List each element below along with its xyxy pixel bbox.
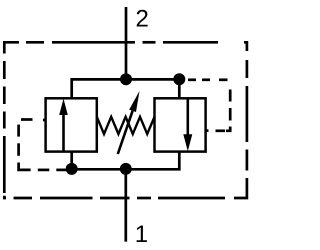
junction dot port1 / bottom bus — [120, 163, 132, 175]
right valve top stub wire — [178, 79, 181, 98]
svg-text:1: 1 — [135, 221, 148, 248]
enclosure dashed boundary left — [4, 61, 6, 198]
pilot line of V2 (dashed, from port2 side to right of valve) — [188, 80, 230, 131]
valve V1 envelope (left relief element) — [46, 98, 97, 151]
top bus wire with left corner to valve V1 — [72, 79, 180, 98]
port 2 line — [125, 7, 128, 80]
valve V2 flow arrow (down) — [183, 99, 192, 152]
junction dot bottom bus / left stub / pilot — [66, 163, 78, 175]
junction dot port2 / top bus — [120, 73, 132, 85]
spring adjustment arrow — [118, 91, 140, 154]
port 1 line — [124, 169, 127, 242]
valve V2 envelope (right relief element) — [155, 98, 206, 151]
adjustable spring — [97, 117, 155, 134]
enclosure dashed boundary top — [4, 42, 247, 53]
svg-text:2: 2 — [136, 6, 149, 33]
valve V1 flow arrow (up) — [59, 99, 68, 152]
pilot line of V1 (dashed, from port1 side to left of valve) — [19, 120, 67, 170]
bottom bus wire with valve stubs — [72, 152, 180, 170]
junction dot top bus / right stub — [173, 73, 185, 85]
enclosure dashed boundary right — [246, 60, 249, 171]
enclosure dashed boundary bottom — [14, 178, 247, 198]
